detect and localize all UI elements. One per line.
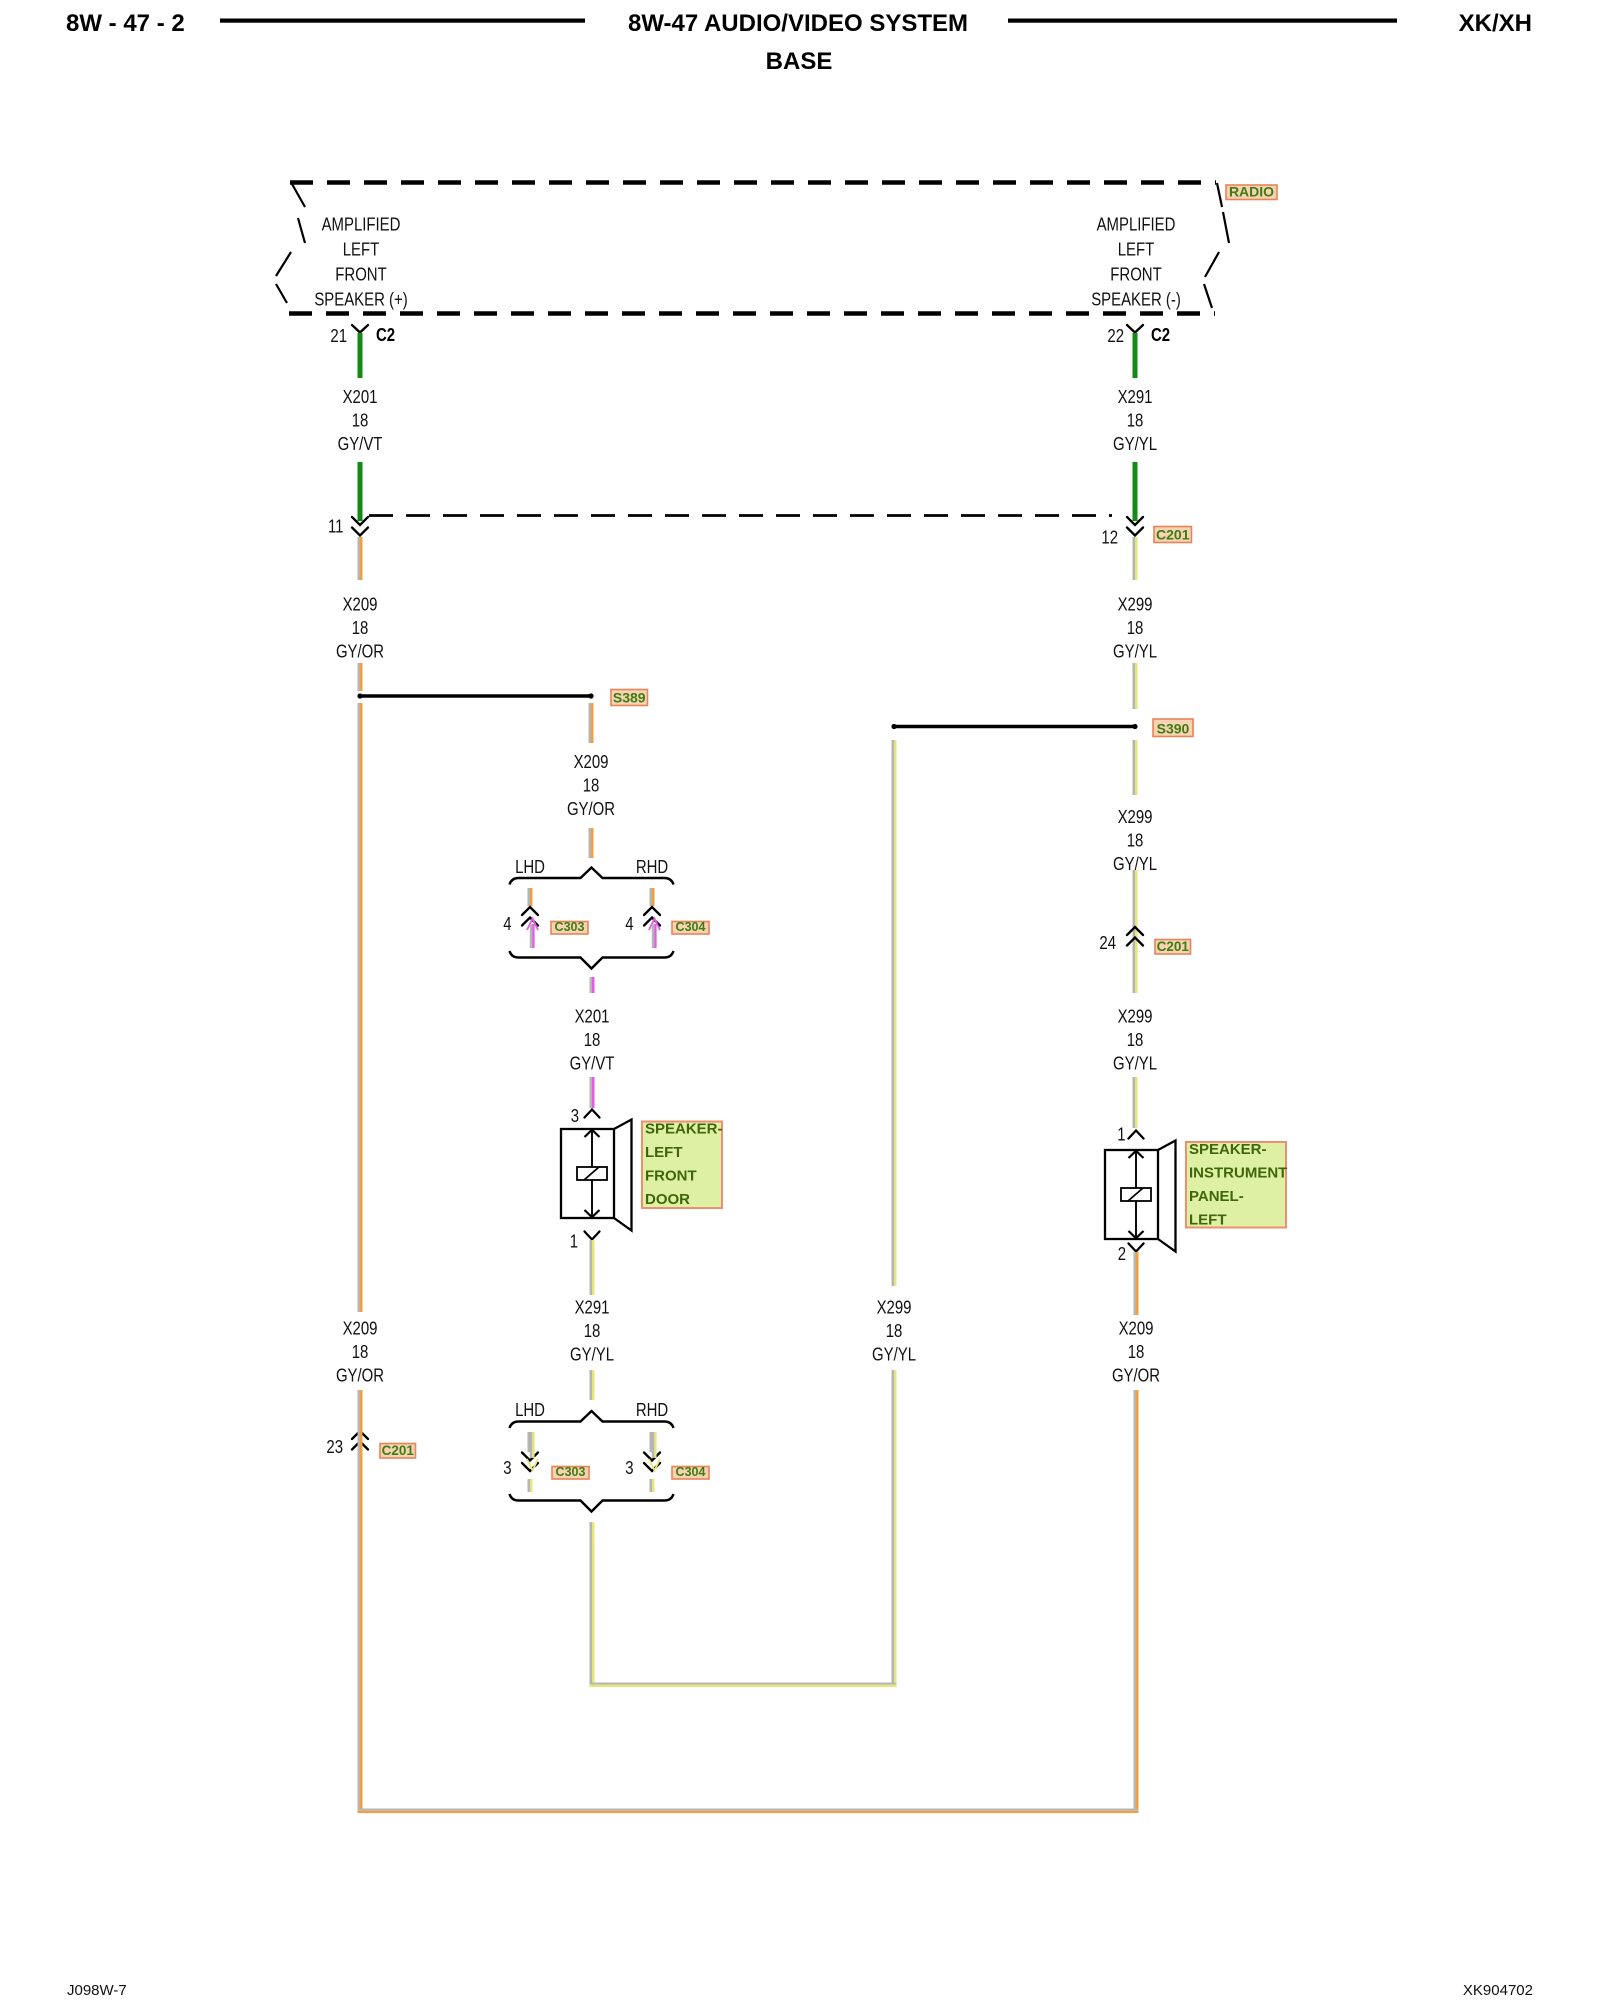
svg-text:22: 22 [1107, 326, 1124, 347]
IP speaker pin 1 chevron [1129, 1131, 1144, 1139]
brace merge lower merge [510, 1494, 674, 1512]
svg-text:C2: C2 [1151, 325, 1170, 346]
arrow GY/YL into C304 [649, 1432, 660, 1471]
svg-text:X201: X201 [343, 387, 378, 408]
svg-text:X291: X291 [575, 1297, 610, 1318]
svg-text:1: 1 [570, 1231, 578, 1252]
svg-text:18: 18 [352, 410, 369, 431]
radio box right torn edge [1204, 183, 1229, 308]
svg-text:GY/OR: GY/OR [336, 641, 384, 662]
connector tag C201 [1155, 939, 1191, 954]
svg-text:FRONT: FRONT [645, 1168, 697, 1185]
svg-text:LEFT: LEFT [343, 239, 380, 260]
svg-text:3: 3 [571, 1106, 579, 1127]
svg-text:18: 18 [1128, 1342, 1145, 1363]
wire GY/OR LHD branch stub [528, 888, 533, 906]
connector C201 pin 23 chevrons [352, 1431, 368, 1439]
wire X209 GY/OR below IP speaker [1134, 1252, 1139, 1315]
svg-text:C304: C304 [676, 920, 706, 934]
label wire X299 GY/YL [1113, 1006, 1157, 1074]
svg-text:C303: C303 [555, 920, 585, 934]
wire X291 dark green segment upper [1133, 333, 1138, 378]
svg-text:X209: X209 [343, 594, 378, 615]
svg-text:LHD: LHD [515, 1400, 545, 1421]
wire X209 GY/OR branch below S389 [589, 703, 594, 743]
svg-text:21: 21 [330, 326, 347, 347]
svg-text:X299: X299 [1118, 594, 1153, 615]
svg-text:S390: S390 [1157, 720, 1190, 736]
svg-text:C2: C2 [376, 325, 395, 346]
svg-text:SPEAKER-: SPEAKER- [645, 1121, 723, 1138]
wire X209 GY/OR into splice [358, 663, 363, 691]
wire X201 GY/VT into door speaker [590, 1077, 595, 1108]
svg-text:AMPLIFIED: AMPLIFIED [1097, 214, 1176, 235]
svg-text:GY/YL: GY/YL [570, 1344, 614, 1365]
svg-text:18: 18 [352, 618, 369, 639]
label wire X209 GY/OR [1112, 1318, 1160, 1386]
svg-text:X209: X209 [343, 1318, 378, 1339]
svg-text:18: 18 [1127, 830, 1144, 851]
wire X291 GY/YL into lower split [590, 1370, 595, 1400]
connector tag C303 [551, 920, 588, 934]
label wire X209 GY/OR [336, 594, 384, 662]
brace split upper LHD RHD [510, 868, 674, 885]
connector tag C201 [380, 1443, 416, 1458]
wire X209 GY/OR left drop [358, 1390, 363, 1809]
svg-text:SPEAKER-: SPEAKER- [1189, 1141, 1267, 1158]
svg-text:GY/YL: GY/YL [872, 1344, 916, 1365]
wire GY/YL RHD lower stub [650, 1479, 655, 1492]
wire X291 GY/YL below door speaker [590, 1240, 595, 1295]
svg-text:X201: X201 [575, 1006, 610, 1027]
svg-text:FRONT: FRONT [1110, 264, 1161, 285]
svg-text:C201: C201 [382, 1443, 415, 1458]
connector tag S389 [611, 689, 648, 705]
radio box top dashed edge [290, 180, 1216, 185]
wire X201 GY/VT short stub [590, 977, 595, 993]
svg-text:3: 3 [503, 1458, 511, 1479]
wire X209 GY/OR into LHD RHD split [589, 828, 594, 858]
wire X209 GY/OR right drop [1134, 1390, 1139, 1809]
connector tag S390 [1153, 719, 1193, 737]
svg-text:23: 23 [326, 1437, 343, 1458]
svg-text:DOOR: DOOR [645, 1191, 690, 1208]
svg-text:GY/YL: GY/YL [1113, 1053, 1157, 1074]
wire X299 GY/YL into C201 pin 24 [1133, 870, 1138, 993]
door speaker pin 3 chevron [585, 1110, 600, 1118]
svg-text:GY/VT: GY/VT [338, 434, 383, 455]
connector C201 pin 11 chevron upper [352, 517, 368, 525]
IP speaker pin 2 chevron [1129, 1244, 1144, 1252]
connector tag C304 [672, 1465, 709, 1479]
wire X299 GY/YL drop from merge [590, 1522, 595, 1683]
svg-text:GY/OR: GY/OR [336, 1365, 384, 1386]
svg-text:SPEAKER (-): SPEAKER (-) [1091, 289, 1181, 310]
wire GY/OR RHD branch stub [650, 888, 655, 906]
svg-text:C201: C201 [1157, 939, 1190, 954]
svg-text:XK904702: XK904702 [1463, 1982, 1533, 1999]
wire X299 GY/YL below S390 [1133, 740, 1138, 795]
speaker instrument panel left symbol [1105, 1141, 1176, 1252]
svg-text:2: 2 [1118, 1244, 1126, 1265]
svg-text:GY/VT: GY/VT [570, 1053, 615, 1074]
svg-text:12: 12 [1101, 527, 1118, 548]
svg-text:24: 24 [1099, 933, 1116, 954]
wire X209 GY/OR bottom run [358, 1809, 1139, 1814]
radio output label left [314, 214, 407, 310]
svg-text:18: 18 [352, 1342, 369, 1363]
radio output label right [1091, 214, 1181, 310]
svg-text:GY/OR: GY/OR [1112, 1365, 1160, 1386]
label wire X209 GY/OR [567, 752, 615, 820]
svg-text:18: 18 [1127, 410, 1144, 431]
connector C304 pin 4 chevrons [644, 907, 660, 915]
label wire X291 GY/YL [570, 1297, 614, 1365]
arrow GY/VT into C303 [527, 919, 538, 949]
label wire X209 GY/OR [336, 1318, 384, 1386]
svg-text:FRONT: FRONT [335, 264, 386, 285]
wire X201 dark green segment upper [358, 333, 363, 378]
svg-text:18: 18 [584, 1030, 601, 1051]
svg-text:C201: C201 [1156, 526, 1190, 542]
svg-text:1: 1 [1117, 1124, 1125, 1145]
svg-text:X291: X291 [1118, 387, 1153, 408]
door speaker pin 1 chevron [585, 1232, 600, 1240]
svg-text:18: 18 [1127, 618, 1144, 639]
wire GY/YL RHD branch stub [650, 1432, 655, 1452]
wire X299 GY/YL riser upper to S390 [892, 740, 897, 1286]
arrow GY/YL into C303 [527, 1432, 538, 1471]
label wire X201 GY/VT [338, 387, 383, 455]
label wire X299 GY/YL [1113, 807, 1157, 875]
svg-text:X299: X299 [1118, 1006, 1153, 1027]
wire X299 GY/YL riser lower [892, 1370, 897, 1683]
label wire X291 GY/YL [1113, 387, 1157, 455]
svg-text:XK/XH: XK/XH [1459, 10, 1532, 37]
svg-text:8W-47 AUDIO/VIDEO SYSTEM: 8W-47 AUDIO/VIDEO SYSTEM [628, 10, 968, 37]
svg-text:GY/YL: GY/YL [1113, 434, 1157, 455]
svg-text:18: 18 [584, 1321, 601, 1342]
svg-text:C304: C304 [676, 1465, 706, 1479]
svg-text:X209: X209 [1119, 1318, 1154, 1339]
svg-text:4: 4 [625, 914, 633, 935]
svg-text:INSTRUMENT: INSTRUMENT [1189, 1165, 1287, 1182]
splice S389 [357, 693, 593, 698]
connector C201 pin 24 chevron upper [1127, 927, 1143, 935]
wire GY/YL LHD branch stub [528, 1432, 533, 1452]
svg-text:X299: X299 [1118, 807, 1153, 828]
label wire X299 GY/YL [1113, 594, 1157, 662]
wire X209 GY/OR long left drop [358, 703, 363, 1312]
brace split lower LHD RHD [510, 1411, 674, 1428]
label wire X299 GY/YL [872, 1297, 916, 1365]
connector C304 pin 3 chevrons [644, 1453, 660, 1461]
wire X299 GY/YL below pin 12 [1133, 537, 1138, 580]
svg-text:8W - 47 - 2: 8W - 47 - 2 [66, 10, 185, 37]
svg-text:GY/YL: GY/YL [1113, 641, 1157, 662]
connector C201 pin 12 chevron upper [1127, 517, 1143, 525]
connector C2 pin 22 [1127, 325, 1143, 333]
connector C303 pin 4 chevrons [522, 907, 538, 915]
connector tag C304 [672, 920, 709, 934]
svg-text:X209: X209 [574, 752, 609, 773]
svg-text:LHD: LHD [515, 857, 545, 878]
svg-text:4: 4 [503, 914, 511, 935]
svg-text:RADIO: RADIO [1229, 183, 1274, 199]
connector tag C201 [1154, 526, 1192, 542]
wire X209 GY/OR below pin 11 [358, 537, 363, 580]
svg-text:18: 18 [583, 775, 600, 796]
connector tag RADIO [1226, 183, 1277, 199]
svg-text:S389: S389 [613, 689, 646, 705]
svg-text:X299: X299 [877, 1297, 912, 1318]
svg-text:LEFT: LEFT [1118, 239, 1155, 260]
connector C2 pin 21 [352, 325, 368, 333]
wire GY/YL LHD lower stub [528, 1479, 533, 1492]
wire X299 GY/YL into IP speaker pin 1 [1133, 1077, 1138, 1128]
svg-text:18: 18 [886, 1321, 903, 1342]
arrow GY/VT into C304 [649, 919, 660, 949]
wire X291 dark green segment lower [1133, 462, 1138, 521]
svg-text:SPEAKER (+): SPEAKER (+) [314, 289, 407, 310]
splice S390 [891, 724, 1137, 729]
label wire X201 GY/VT [570, 1006, 615, 1074]
wire X201 dark green segment lower [358, 462, 363, 521]
wire X299 GY/YL into splice S390 [1133, 663, 1138, 709]
svg-text:BASE: BASE [766, 48, 833, 75]
svg-text:AMPLIFIED: AMPLIFIED [322, 214, 401, 235]
svg-text:18: 18 [1127, 1030, 1144, 1051]
speaker left front door symbol [561, 1120, 632, 1231]
label SPEAKER-LEFT FRONT DOOR [642, 1121, 723, 1209]
svg-text:3: 3 [625, 1458, 633, 1479]
connector C201 dashed line [369, 514, 1112, 517]
connector C303 pin 3 chevrons [522, 1453, 538, 1461]
radio box left torn edge [276, 184, 305, 303]
svg-text:RHD: RHD [636, 857, 668, 878]
header rule left [220, 19, 585, 23]
svg-text:PANEL-: PANEL- [1189, 1188, 1244, 1205]
svg-text:LEFT: LEFT [645, 1144, 683, 1161]
brace merge upper merge [510, 951, 674, 969]
wire X299 GY/YL bottom run [590, 1683, 897, 1688]
svg-text:11: 11 [328, 516, 344, 537]
svg-text:C303: C303 [556, 1465, 586, 1479]
svg-text:GY/OR: GY/OR [567, 799, 615, 820]
svg-text:J098W-7: J098W-7 [67, 1982, 127, 1999]
svg-text:LEFT: LEFT [1189, 1212, 1227, 1229]
header rule right [1008, 19, 1397, 23]
label SPEAKER-INSTRUMENT PANEL-LEFT [1186, 1141, 1287, 1229]
connector tag C303 [552, 1465, 589, 1479]
radio box bottom dashed edge [289, 311, 1215, 316]
svg-text:RHD: RHD [636, 1400, 668, 1421]
